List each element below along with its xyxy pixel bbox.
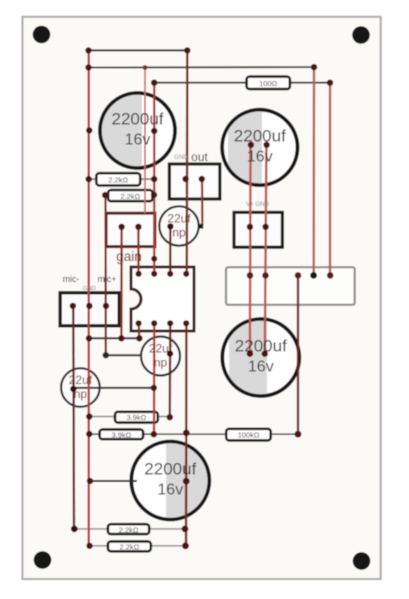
mounting hole top-right: [352, 26, 370, 44]
junction dots wire y=338: [118, 335, 142, 341]
wire red long column lower x=186.2: [185, 323, 188, 546]
capacitor C3 2200uf 16v bottom-left body: [131, 441, 211, 521]
svg-text:3.9kΩ: 3.9kΩ: [127, 413, 147, 422]
svg-text:GND: GND: [83, 286, 96, 292]
junction dots on bus x=88.7: [85, 47, 93, 549]
svg-text:3.9kΩ: 3.9kΩ: [112, 430, 132, 439]
resistor 3.9k R4: [115, 412, 158, 423]
svg-text:2.2kΩ: 2.2kΩ: [120, 192, 140, 201]
svg-text:22uf: 22uf: [69, 373, 93, 387]
svg-text:100Ω: 100Ω: [259, 79, 278, 88]
wire resistor row y=434: [89, 433, 298, 435]
out box pins: [182, 176, 205, 182]
wire top black y=50: [88, 49, 187, 51]
junction dots right columns tops: [295, 64, 334, 438]
svg-text:16v: 16v: [125, 132, 151, 149]
wire light pink column x=145: [144, 68, 146, 214]
wire red column x=154 lower: [153, 323, 155, 434]
label np3 value: [149, 342, 173, 370]
gain box pins: [118, 224, 141, 230]
wire resistor R2 leads y=179: [89, 178, 155, 180]
wire red chip pin3 bottom to R4 x=170.2: [169, 323, 172, 417]
svg-text:2200uf: 2200uf: [235, 337, 287, 356]
svg-text:2.2kΩ: 2.2kΩ: [120, 543, 140, 552]
svg-text:2.2kΩ: 2.2kΩ: [119, 525, 139, 534]
chip pins bottom row: [136, 320, 190, 326]
junction dots column x=73.5: [70, 386, 78, 533]
svg-text:2.2kΩ: 2.2kΩ: [108, 176, 128, 185]
resistor 2.2k R8: [108, 541, 151, 551]
wide connector box right: [226, 267, 355, 305]
chip pins top row: [136, 271, 190, 277]
svg-text:mic+: mic+: [98, 274, 117, 284]
wire red GND column x=265.8: [265, 145, 267, 354]
wire red column x=154 upper: [153, 83, 155, 274]
svg-text:16v: 16v: [248, 359, 274, 376]
wire red right column x=330: [329, 83, 331, 276]
R4 right pad: [167, 414, 173, 420]
junction dots long column x=187: [182, 47, 191, 549]
np1 black square pad: [199, 224, 204, 229]
svg-text:100kΩ: 100kΩ: [238, 431, 260, 440]
svg-text:gain: gain: [116, 249, 142, 264]
resistor 2.2k R3: [108, 190, 152, 201]
wire red mic1 column x=73.5: [72, 306, 75, 529]
resistor 2.2k R7: [108, 524, 149, 534]
mounting hole bottom-right: [353, 552, 371, 570]
IC chip U1 body with notch: [131, 267, 194, 331]
svg-text:out: out: [191, 150, 208, 164]
wire resistor R8 leads y=545.8: [90, 545, 186, 547]
label C3 value: [144, 460, 196, 499]
wire red long column upper x=187.3: [186, 50, 189, 273]
capacitor 22uf np near out box body: [159, 206, 198, 245]
label C1 value: [112, 110, 164, 149]
mounting hole top-left: [33, 26, 51, 44]
C4 pads: [247, 351, 268, 357]
label GND out: [174, 150, 208, 164]
resistor 3.9k R5: [100, 429, 144, 439]
capacitor C2 2200uf 16v top-right body: [222, 108, 297, 187]
wire red gain pin2 to chip x=138.4: [137, 227, 139, 274]
wire red wide box to 100k x=298: [297, 275, 299, 434]
C2 pads: [248, 142, 270, 148]
capacitor 22uf np center body: [141, 337, 180, 376]
junction dot R3 left: [102, 192, 108, 198]
wire red out pin2 to np1 pad x=202.5: [201, 179, 204, 226]
junction dot np3 wire: [103, 352, 109, 358]
junction dot pink column top: [143, 65, 148, 70]
svg-text:V+ GND: V+ GND: [246, 201, 270, 208]
capacitor 22uf np left-middle body: [61, 368, 100, 407]
wire to 100ohm resistor y=82.7: [154, 82, 330, 84]
V+ GND connector box: [234, 212, 282, 247]
label C4 value: [235, 337, 287, 376]
capacitor C4 2200uf 16v bottom-right body: [222, 318, 299, 398]
svg-text:np: np: [172, 226, 186, 240]
label C2 value: [234, 127, 286, 166]
wire red gain pin1 to chip row x=121.6: [120, 227, 122, 338]
out connector box: [169, 164, 220, 199]
svg-text:2200uf: 2200uf: [112, 110, 164, 129]
V+ box pins: [247, 224, 269, 230]
wide box pads: [247, 272, 334, 279]
svg-text:2200uf: 2200uf: [144, 460, 196, 479]
wire to np cap center y=355.2: [106, 354, 142, 356]
junction dots column x=154: [151, 80, 158, 438]
np1 left pad: [167, 223, 173, 229]
svg-text:16v: 16v: [247, 149, 273, 166]
mic box pins: [70, 303, 110, 309]
svg-text:2200uf: 2200uf: [234, 127, 286, 146]
wire resistor R4 leads y=416.5: [89, 416, 170, 418]
np3 right pad: [167, 350, 173, 356]
mounting hole bottom-left: [34, 551, 52, 569]
label np1 value: [167, 212, 191, 240]
resistor 2.2k R2: [96, 173, 140, 185]
svg-text:GND: GND: [174, 154, 188, 161]
wire red V+ column x=250.3: [249, 145, 252, 354]
capacitor C1 2200uf 16v top-left body: [100, 92, 175, 169]
resistor 100k R6: [226, 429, 271, 441]
wire second black y=67.5: [88, 66, 314, 68]
svg-text:np: np: [154, 356, 168, 370]
resistor 100ohm top: [247, 77, 290, 90]
wire red gain-left column x=105.8: [104, 195, 107, 355]
wire chip row y=338.3: [89, 337, 140, 339]
label np2 value: [69, 373, 93, 401]
svg-text:mic-: mic-: [63, 274, 80, 284]
gain connector box: [106, 213, 155, 246]
svg-text:16v: 16v: [157, 482, 183, 499]
wire red np1 to chip pin3 x=170.2: [169, 226, 171, 273]
wire red chip pin1 bottom x=138.8: [138, 323, 141, 338]
wire red right column x=314: [313, 67, 316, 275]
wire resistor R3 leads y=195: [106, 194, 154, 196]
wire from np cap left y=387.9: [73, 387, 154, 389]
wire red bus left x=88.7: [87, 50, 89, 545]
wire into C3 y=481: [90, 480, 137, 482]
wire resistor R7 leads y=528.9: [74, 528, 186, 530]
mic connector box: [60, 293, 119, 326]
